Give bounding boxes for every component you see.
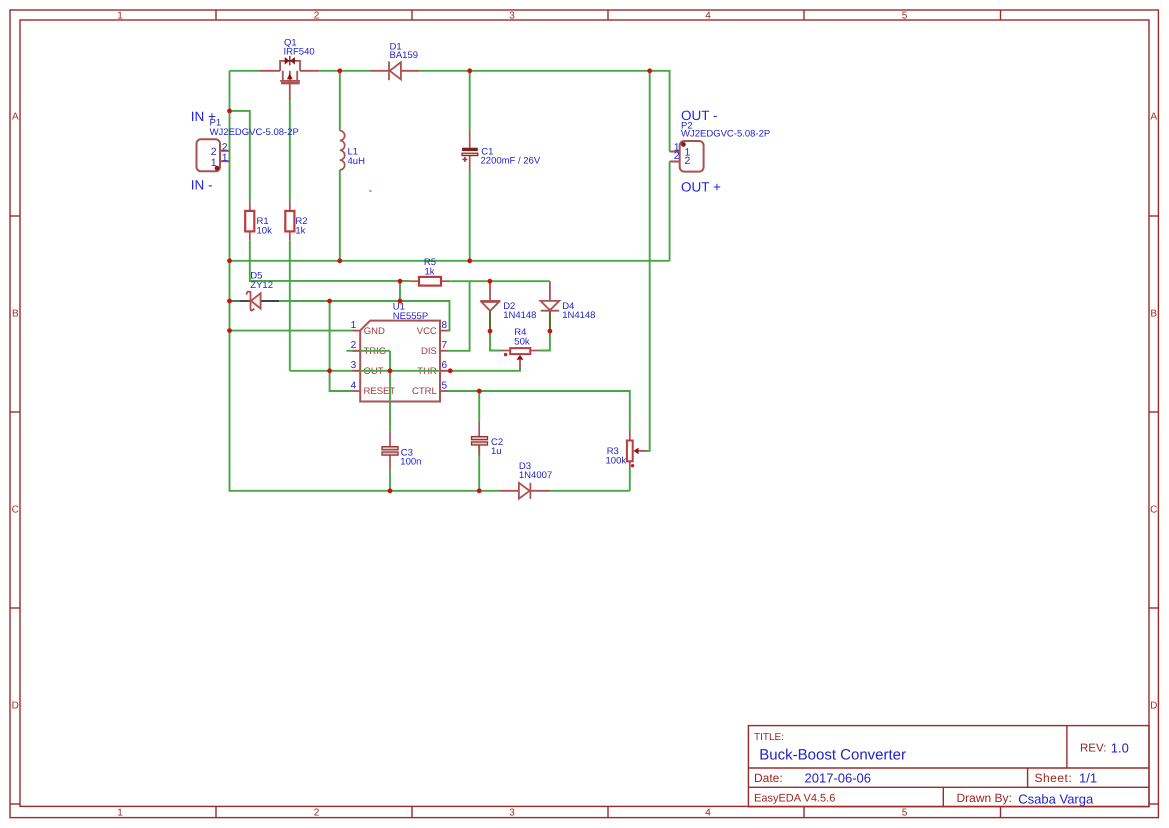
svg-text:D: D	[1150, 701, 1157, 712]
svg-text:IN -: IN -	[191, 177, 213, 192]
svg-text:1/1: 1/1	[1079, 771, 1097, 786]
svg-text:1: 1	[117, 808, 123, 819]
svg-text:C: C	[1150, 505, 1157, 516]
svg-text:NE555P: NE555P	[393, 311, 428, 322]
svg-text:B: B	[12, 309, 19, 320]
svg-text:3: 3	[351, 360, 357, 371]
svg-text:D: D	[12, 701, 19, 712]
svg-text:OUT -: OUT -	[681, 108, 718, 123]
svg-text:1N4148: 1N4148	[503, 310, 536, 321]
svg-text:A: A	[12, 112, 19, 123]
svg-text:BA159: BA159	[390, 50, 419, 61]
svg-text:1.0: 1.0	[1111, 741, 1129, 756]
svg-text:Date:: Date:	[754, 771, 783, 785]
svg-text:3: 3	[509, 808, 515, 819]
svg-text:1k: 1k	[295, 225, 305, 236]
svg-text:2: 2	[351, 340, 357, 351]
svg-text:Csaba Varga: Csaba Varga	[1018, 791, 1094, 806]
svg-text:7: 7	[442, 340, 448, 351]
svg-text:GND: GND	[364, 326, 385, 337]
svg-text:4uH: 4uH	[348, 156, 366, 167]
svg-text:VCC: VCC	[417, 326, 437, 337]
svg-text:CTRL: CTRL	[412, 386, 437, 397]
svg-text:1: 1	[351, 320, 357, 331]
svg-text:B: B	[1150, 309, 1157, 320]
svg-text:A: A	[1150, 112, 1157, 123]
svg-text:Drawn By:: Drawn By:	[957, 791, 1012, 805]
svg-text:WJ2EDGVC-5.08-2P: WJ2EDGVC-5.08-2P	[681, 129, 770, 140]
svg-text:2: 2	[314, 11, 320, 22]
svg-text:Buck-Boost Converter: Buck-Boost Converter	[759, 747, 906, 764]
svg-text:2: 2	[685, 155, 691, 167]
svg-text:100k: 100k	[606, 455, 627, 466]
svg-text:5: 5	[442, 380, 448, 391]
svg-text:2017-06-06: 2017-06-06	[805, 771, 872, 786]
svg-text:1: 1	[211, 157, 217, 169]
svg-text:2: 2	[314, 808, 320, 819]
svg-text:TITLE:: TITLE:	[754, 732, 784, 743]
svg-text:OUT +: OUT +	[681, 180, 721, 195]
svg-text:6: 6	[442, 360, 448, 371]
svg-text:IN +: IN +	[191, 109, 216, 124]
svg-text:5: 5	[902, 808, 908, 819]
svg-text:8: 8	[442, 320, 448, 331]
svg-text:4: 4	[705, 11, 711, 22]
svg-text:WJ2EDGVC-5.08-2P: WJ2EDGVC-5.08-2P	[210, 127, 299, 138]
svg-text:1N4148: 1N4148	[562, 310, 595, 321]
svg-text:3: 3	[509, 11, 515, 22]
svg-text:100n: 100n	[400, 457, 421, 468]
svg-text:1: 1	[117, 11, 123, 22]
svg-text:50k: 50k	[514, 336, 530, 347]
svg-text:C: C	[12, 505, 19, 516]
svg-text:4: 4	[705, 808, 711, 819]
svg-text:IRF540: IRF540	[284, 47, 315, 58]
svg-text:1u: 1u	[491, 446, 502, 457]
svg-text:ZY12: ZY12	[250, 280, 273, 291]
svg-text:5: 5	[902, 11, 908, 22]
svg-text:DIS: DIS	[421, 346, 437, 357]
svg-text:1N4007: 1N4007	[519, 470, 552, 481]
svg-text:2: 2	[674, 150, 680, 162]
svg-text:10k: 10k	[257, 225, 273, 236]
svg-text:1k: 1k	[425, 266, 435, 277]
svg-text:2200mF / 26V: 2200mF / 26V	[481, 156, 541, 167]
svg-text:Sheet:: Sheet:	[1035, 771, 1073, 785]
svg-text:4: 4	[351, 380, 357, 391]
svg-text:EasyEDA V4.5.6: EasyEDA V4.5.6	[754, 793, 835, 805]
svg-text:REV:: REV:	[1080, 743, 1106, 755]
svg-text:1: 1	[222, 152, 228, 164]
